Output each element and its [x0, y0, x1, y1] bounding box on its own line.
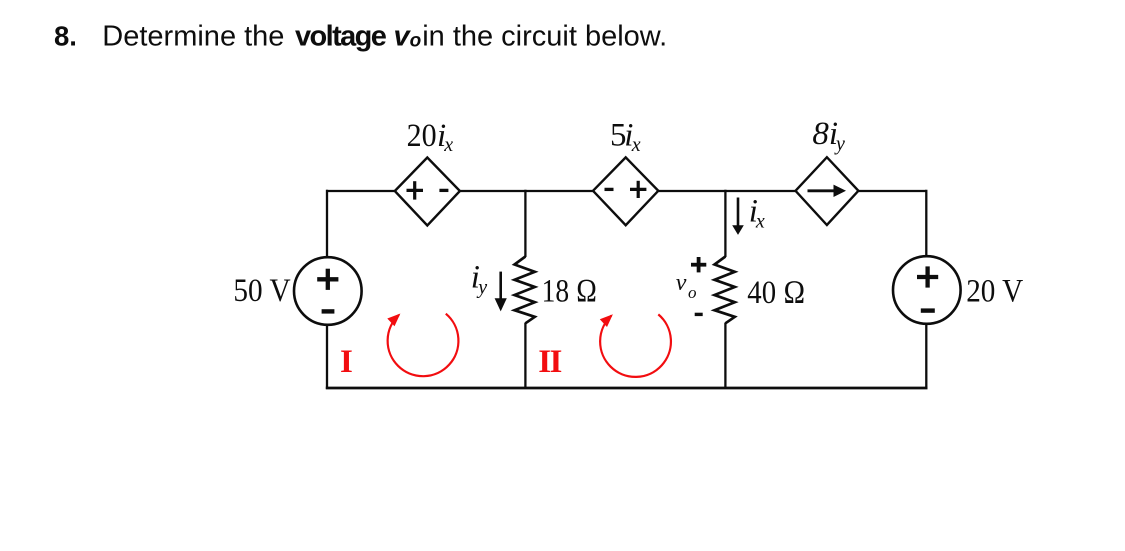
ix arrow	[732, 198, 744, 235]
5ix plus sign	[630, 181, 646, 198]
svg-text:y: y	[834, 133, 845, 155]
20V source minus sign	[921, 308, 935, 312]
50V source minus sign	[322, 309, 335, 313]
svg-text:o: o	[688, 283, 697, 302]
voltage source 50V circle	[294, 257, 362, 325]
wire left vertical lower	[326, 325, 328, 390]
wire right vertical lower	[925, 324, 927, 390]
vo minus sign	[695, 313, 703, 316]
voltage source 20V circle	[893, 256, 961, 324]
label 20ix	[407, 118, 454, 156]
svg-text:50 V: 50 V	[233, 273, 290, 309]
vo plus sign	[691, 257, 706, 272]
mesh loop I arrow (red)	[387, 314, 458, 377]
svg-text:x: x	[443, 134, 453, 156]
svg-text:voltage: voltage	[295, 20, 387, 52]
label 8iy	[812, 116, 845, 155]
5ix minus sign	[605, 188, 614, 191]
20V source plus sign	[917, 266, 938, 287]
wire top-left segment	[326, 190, 396, 192]
svg-text:in the circuit below.: in the circuit below.	[422, 20, 667, 52]
wire right vertical upper	[925, 190, 927, 257]
svg-text:40 Ω: 40 Ω	[747, 275, 805, 311]
label vo	[676, 270, 697, 302]
dependent current source 8iy (diamond)	[796, 157, 859, 225]
current label ix	[749, 194, 765, 233]
wire middle branch upper (18 ohm)	[524, 190, 526, 257]
svg-text:I: I	[340, 344, 353, 380]
problem statement text	[54, 20, 667, 52]
svg-text:20 V: 20 V	[966, 273, 1023, 309]
50V source plus sign	[317, 269, 338, 290]
current label iy	[471, 260, 487, 299]
dependent voltage source 5ix (diamond)	[593, 157, 658, 225]
wire bottom rail	[326, 387, 928, 390]
svg-text:8.: 8.	[54, 20, 77, 51]
svg-text:II: II	[538, 344, 561, 380]
wire top segment (5ix to 8iy through 40ohm node)	[658, 190, 796, 192]
svg-text:8i: 8i	[812, 116, 838, 152]
svg-text:x: x	[755, 211, 765, 233]
resistor 18 ohm zigzag	[515, 257, 535, 324]
wire middle branch lower (18 ohm)	[524, 323, 526, 389]
20ix minus sign	[439, 189, 448, 192]
wire 40ohm branch upper	[724, 190, 726, 257]
label 5ix	[610, 118, 641, 157]
svg-text:Determine the: Determine the	[102, 20, 284, 52]
wire top middle segment (20ix to 5ix through 18ohm node)	[460, 190, 594, 192]
svg-text:x: x	[631, 134, 641, 156]
wire left vertical upper	[326, 190, 328, 258]
svg-text:18 Ω: 18 Ω	[542, 274, 598, 310]
mesh loop II arrow (red)	[600, 314, 671, 377]
iy arrow	[495, 272, 507, 312]
8iy arrow	[808, 185, 847, 197]
wire 40ohm branch lower	[724, 323, 726, 389]
svg-text:y: y	[476, 277, 487, 299]
resistor 40 ohm zigzag	[715, 257, 735, 324]
20ix plus sign	[407, 181, 424, 199]
dependent voltage source 20ix (diamond)	[395, 158, 460, 226]
wire top-right segment	[858, 190, 926, 192]
svg-text:v: v	[676, 270, 687, 296]
svg-text:20: 20	[407, 118, 437, 154]
